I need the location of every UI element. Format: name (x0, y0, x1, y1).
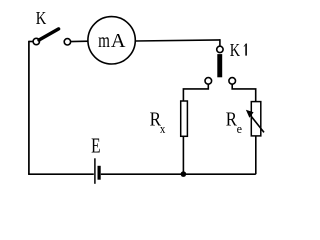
switch K right terminal circle (64, 39, 70, 45)
wire stub above K1 (219, 39, 221, 46)
wire Rx bottom lead (182, 136, 184, 174)
switch K1 top terminal circle (217, 46, 223, 52)
ammeter mA circle (88, 17, 135, 64)
wire K1 right contact jog to Re (232, 84, 256, 102)
rheostat Re arrowhead (246, 110, 254, 118)
rheostat Re arrow shaft (249, 114, 264, 133)
wire left stub from switch K to left rail (29, 41, 34, 43)
rheostat Re body (251, 102, 260, 136)
switch K left terminal circle (33, 38, 39, 44)
wire left vertical rail (28, 41, 30, 175)
battery E long plate (94, 158, 96, 184)
svg-text:x: x (160, 122, 166, 136)
wire bottom left (rail to battery) (28, 173, 94, 175)
wire K to ammeter (71, 40, 89, 42)
wire bottom right (battery to right rail) (101, 173, 256, 175)
wire Re bottom lead (255, 136, 257, 174)
svg-text:e: e (237, 122, 243, 136)
svg-text:K: K (230, 40, 240, 60)
junction node dot (181, 171, 187, 177)
switch K1 right contact circle (229, 78, 236, 85)
wire Rx top lead and jog to K1 left contact (183, 84, 208, 102)
switch K1 blade (thick bar) (217, 54, 222, 77)
resistor Rx body (181, 101, 188, 136)
switch K blade (39, 29, 59, 40)
svg-text:m: m (98, 30, 110, 52)
wire mA to K1 (135, 40, 220, 41)
battery E short thick plate (97, 166, 100, 180)
switch K1 left contact circle (205, 78, 212, 85)
svg-text:A: A (111, 30, 126, 52)
svg-text:E: E (91, 136, 100, 158)
svg-text:K: K (36, 8, 47, 28)
